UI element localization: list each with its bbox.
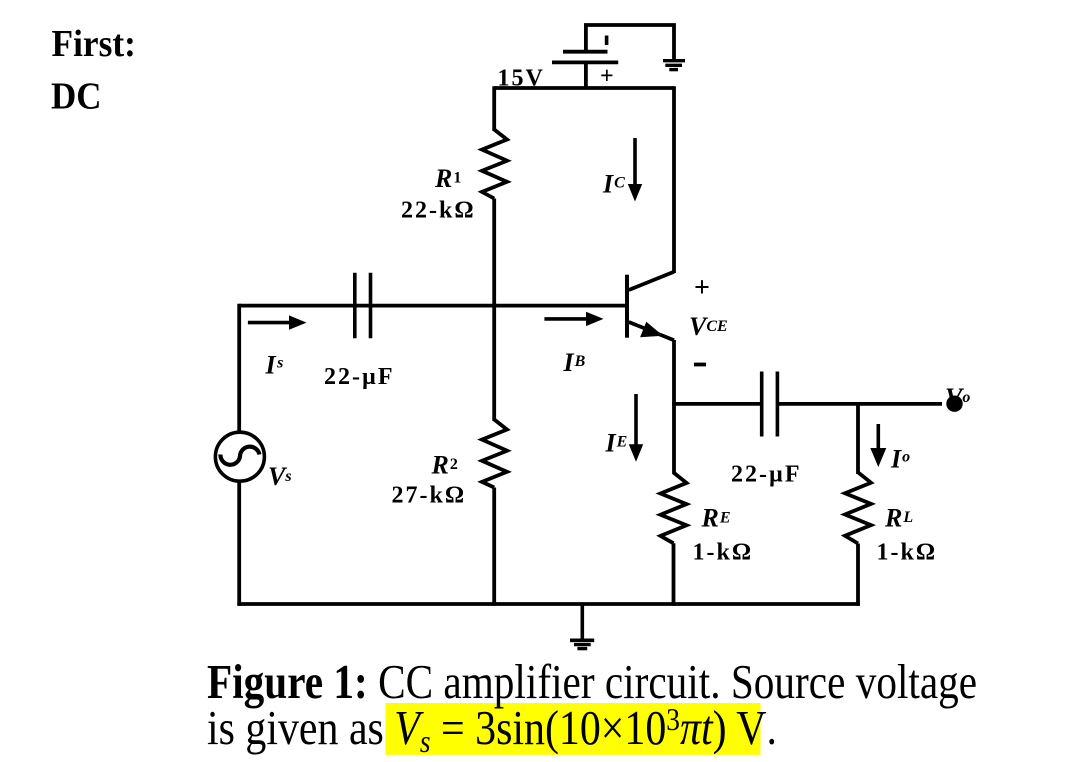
wire RE bottom [672, 543, 676, 606]
svg-text:1-kΩ: 1-kΩ [877, 540, 938, 566]
wire R1 to R2 [492, 199, 496, 422]
svg-text:DC: DC [51, 74, 101, 117]
svg-text:22-µF: 22-µF [324, 364, 394, 390]
svg-text:R1: R1 [434, 164, 461, 193]
current arrow IB [544, 312, 603, 326]
svg-text:1-kΩ: 1-kΩ [693, 540, 754, 566]
wire RL drop [856, 404, 860, 474]
svg-text:R2: R2 [431, 450, 458, 479]
resistor RE [661, 473, 687, 544]
wire output right [777, 402, 942, 406]
svg-text:+: + [694, 273, 710, 304]
resistor R2 [482, 420, 507, 488]
wire collector drop [672, 86, 676, 273]
wire output node [672, 402, 762, 406]
svg-text:22-kΩ: 22-kΩ [401, 198, 476, 224]
wire battery top to ground [586, 25, 674, 61]
ground (bottom) [570, 604, 594, 649]
svg-text:RL: RL [884, 504, 913, 533]
battery V1 [552, 36, 618, 90]
wire RL bottom [856, 544, 860, 606]
capacitor C2 [762, 372, 778, 437]
resistor RL [845, 472, 871, 543]
wire base [239, 304, 627, 308]
svg-text:Is: Is [265, 351, 284, 380]
wire R2 bottom [492, 488, 496, 606]
caption highlight [386, 703, 761, 755]
svg-text:Io: Io [890, 445, 910, 474]
svg-text:VCE: VCE [689, 312, 728, 341]
wire input left vertical [237, 304, 241, 433]
svg-text:IE: IE [605, 429, 628, 458]
svg-text:Vs: Vs [268, 462, 292, 491]
current arrow Is [248, 315, 307, 329]
wire supply left drop [492, 86, 496, 131]
node Vo [945, 383, 970, 412]
svg-text:is given as Vs = 3sin(10×103πt: is given as Vs = 3sin(10×103πt) V. [207, 700, 777, 760]
wire emitter [672, 340, 676, 474]
svg-text:IB: IB [563, 348, 586, 377]
label minus VCE [694, 363, 706, 367]
capacitor C1 [355, 273, 371, 339]
svg-text:+: + [600, 64, 614, 90]
transistor Q1 [627, 272, 674, 340]
current arrow Io [870, 424, 886, 467]
current arrow IE [629, 394, 643, 462]
ground (top right) [663, 61, 685, 70]
current arrow IC [628, 138, 642, 202]
source Vs [215, 432, 264, 481]
wire supply rail [494, 86, 674, 90]
wire bottom rail [237, 602, 859, 606]
svg-text:First:: First: [52, 22, 136, 64]
svg-text:IC: IC [602, 170, 625, 199]
wire source bottom [237, 481, 241, 606]
resistor R1 [482, 130, 507, 199]
svg-text:RE: RE [701, 504, 731, 533]
svg-text:22-µF: 22-µF [731, 462, 801, 488]
svg-text:27-kΩ: 27-kΩ [392, 483, 467, 509]
